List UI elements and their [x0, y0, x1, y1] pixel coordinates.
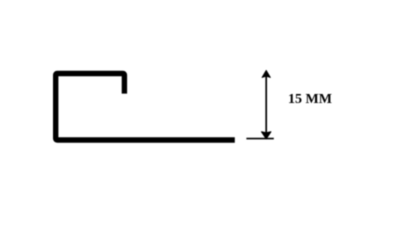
dimension extension line under arrow [246, 138, 273, 140]
dimension arrow shaft [265, 75, 267, 134]
arrowhead top [262, 70, 270, 77]
profile outline (square-edge tile trim cross-section) [56, 74, 235, 141]
arrowhead bottom [262, 132, 271, 139]
svg-text:15 MM: 15 MM [288, 92, 332, 107]
